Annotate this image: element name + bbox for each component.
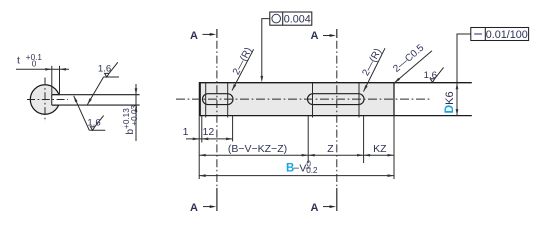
white mask over circle arc across notch [52, 95, 61, 104]
svg-text:t: t [17, 55, 20, 67]
shaft top edge [200, 82, 472, 84]
dimension t line [16, 68, 69, 70]
extension lines vertical [199, 83, 394, 179]
roundness tolerance frame 0.004 [270, 12, 312, 26]
notch top/bottom re-stroke [52, 95, 59, 105]
shaft bottom edge [200, 115, 472, 117]
dimension row 1-12 line [186, 138, 233, 140]
extension: keyway2 right end [363, 116, 365, 163]
surface finish symbol bottom-left 1.6 [87, 116, 105, 131]
arrows row2 [199, 154, 206, 157]
extension: step edge down [393, 116, 395, 179]
dimension b line [135, 84, 137, 141]
svg-text:A: A [190, 202, 198, 214]
extension: keyway1 end [232, 116, 234, 142]
shaft left end edge [199, 82, 201, 116]
chamfer label 2-C0.5 [391, 42, 432, 83]
section line A-A first (dash-dot) [216, 29, 218, 211]
centerline horizontal of circle [27, 99, 68, 101]
svg-text:1: 1 [183, 126, 189, 138]
keyway width extension line bottom (b) [59, 104, 140, 106]
dimension t extension lines [52, 66, 60, 95]
svg-text:DK6: DK6 [442, 91, 456, 113]
shaft end circle outline [30, 85, 59, 114]
dimension row B-V line [199, 175, 394, 177]
arrows for 1 and 12 [193, 138, 200, 141]
surface finish 1.6 on right plain section [424, 67, 444, 82]
extension: keyway1 left arc center [205, 83, 207, 118]
leader from 0.004 frame to shaft [260, 19, 269, 83]
extension: keyway1 right arc center [227, 83, 229, 118]
section label A top-right [311, 30, 336, 42]
section label A bottom-right [311, 202, 336, 214]
arrows row3 [199, 174, 206, 177]
extension: keyway2 right arc center [358, 83, 360, 118]
section line A-A second (dash-dot) [336, 29, 338, 211]
straightness tolerance frame 0.01/100 [471, 28, 529, 42]
dimension t arrows [45, 68, 52, 71]
svg-text:0.01/100: 0.01/100 [486, 29, 528, 41]
keyway width extension line top (b) [59, 94, 140, 96]
svg-text:1.6: 1.6 [424, 70, 437, 81]
leader from top 1.6 to lower keyway face [87, 77, 103, 105]
keyway slot 2 [308, 94, 365, 105]
keyway notch (white cut-out) [52, 95, 61, 105]
dimension D K6 line [456, 83, 458, 116]
svg-text:(B−V−KZ−Z): (B−V−KZ−Z) [228, 143, 287, 155]
svg-text:1.6: 1.6 [98, 63, 111, 74]
svg-text:A: A [311, 202, 319, 214]
svg-text:A: A [190, 30, 198, 42]
dimension b arrows [135, 88, 138, 95]
label B-V -0.2 [286, 159, 318, 175]
step edge at end of keyed section [393, 82, 395, 116]
shaft centerline [176, 98, 432, 100]
keyway slot 1 [203, 94, 234, 105]
label D K6 (rotated) [442, 91, 456, 113]
shaft body fill (keyed section) [200, 83, 395, 116]
svg-text:A: A [311, 30, 319, 42]
svg-text:0.004: 0.004 [284, 14, 311, 26]
section label A top-left [190, 30, 216, 42]
extension: keyway2 left arc center [312, 83, 314, 118]
keyway notch outline [52, 95, 59, 105]
keyway radius label 2-(R) second [360, 47, 385, 92]
arrows D dim [456, 83, 459, 90]
keyway radius label 2-(R) first [231, 46, 255, 91]
extension: shaft left end down [198, 116, 200, 179]
leader from 0.01/100 frame to D dimension [457, 34, 471, 83]
dimension b label (rotated) [122, 104, 139, 134]
svg-text:Z: Z [327, 143, 334, 155]
section label A bottom-left [190, 202, 216, 214]
extension: keyway2 left end [307, 116, 309, 163]
svg-text:0: 0 [32, 60, 37, 69]
svg-text:1.6: 1.6 [87, 117, 100, 128]
extension: keyway1 start [201, 116, 203, 143]
surface finish symbol top-left 1.6 [98, 62, 119, 77]
svg-text:KZ: KZ [373, 143, 387, 155]
leader from bottom 1.6 to upper keyway face [74, 96, 90, 131]
svg-text:12: 12 [203, 126, 215, 138]
dimension t label [17, 53, 42, 68]
svg-text:0.2: 0.2 [306, 166, 318, 175]
centerline vertical of circle [44, 78, 46, 123]
dimension row (B-V-KZ-Z) / Z / KZ line [199, 154, 394, 156]
shaft end circle (filled) [30, 85, 59, 114]
